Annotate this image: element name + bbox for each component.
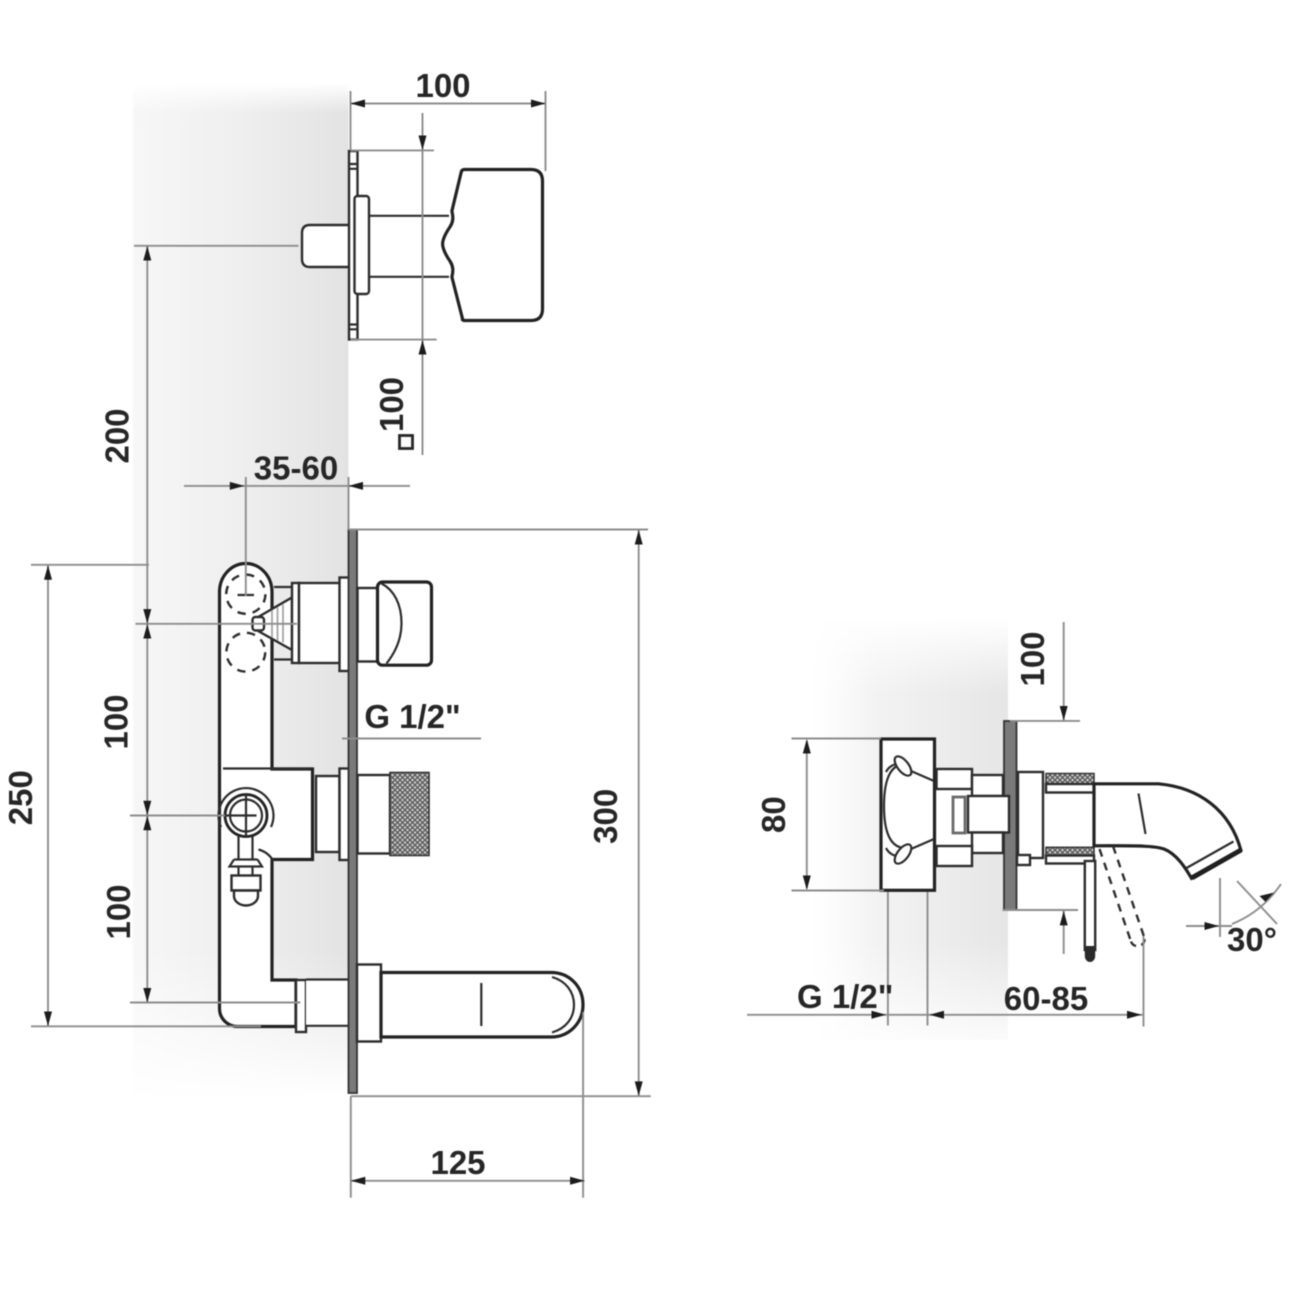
spout outlet face bbox=[1192, 850, 1241, 878]
svg-text:35-60: 35-60 bbox=[254, 450, 338, 487]
upper port inlet (dashed circle, hot) bbox=[226, 575, 265, 614]
handle neck (CL1) bbox=[358, 588, 379, 662]
wall shading band (side view) bbox=[812, 618, 1008, 1095]
dim square-100 centerline bbox=[351, 113, 437, 455]
ref line body top bbox=[31, 564, 149, 566]
svg-text:100: 100 bbox=[415, 67, 470, 104]
dim 80 bbox=[792, 739, 885, 891]
dim 200/100/100 line bbox=[146, 246, 148, 1003]
cartridge dome bbox=[884, 764, 904, 848]
dim 125 bbox=[351, 1012, 585, 1198]
plate screw slots bbox=[349, 164, 358, 329]
spout tube (front) bbox=[381, 973, 583, 1038]
ref line CL3 spout bbox=[130, 1002, 300, 1004]
knurled ring upper edge bbox=[1046, 774, 1094, 785]
spout body (side, curved) bbox=[1094, 784, 1241, 879]
funnel shading ticks bbox=[272, 605, 283, 643]
collar (CL1) bbox=[340, 578, 351, 672]
wall shading band (front/top views) bbox=[133, 83, 349, 1098]
valve stem boss bbox=[253, 617, 265, 631]
cartridge rear guide bbox=[953, 797, 965, 833]
svg-text:G 1/2": G 1/2" bbox=[797, 978, 893, 1015]
escutcheon foot bbox=[1017, 855, 1030, 865]
knurled ring lower edge bbox=[1046, 847, 1094, 855]
knob face arc bbox=[382, 584, 402, 664]
cartridge stem housing bbox=[968, 796, 1009, 833]
spout supply pipe through wall bbox=[306, 980, 349, 1026]
dim 35-60 bbox=[184, 477, 410, 596]
center tick upper circle bbox=[238, 594, 255, 596]
lower port inlet (dashed circle, cold) bbox=[226, 633, 265, 672]
cartridge nut inner circle bbox=[230, 800, 262, 832]
svg-text:100: 100 bbox=[1014, 631, 1051, 686]
lever rod tip bbox=[1085, 946, 1095, 962]
escutcheon box (CL1) bbox=[299, 583, 341, 663]
ref line body bottom bbox=[31, 1025, 261, 1027]
knurled adjuster nut (CL2) bbox=[390, 773, 429, 856]
svg-text:100: 100 bbox=[100, 884, 137, 939]
spout supply flange bbox=[296, 980, 306, 1032]
escutcheon box (CL2, outside) bbox=[358, 775, 391, 854]
dim G1/2 + 60-85 baseline bbox=[747, 892, 1144, 1027]
spout outlet inner line bbox=[1187, 842, 1234, 869]
dim 200 reference line (top) bbox=[134, 245, 299, 247]
drain stem below cartridge bbox=[234, 837, 258, 860]
lever dashed end cap bbox=[1131, 938, 1145, 946]
connection upper block bbox=[937, 769, 973, 789]
spout decor tick (side) bbox=[1139, 794, 1146, 835]
escutcheon (side) bbox=[1018, 772, 1043, 858]
cartridge cross lines bbox=[225, 794, 257, 837]
flange bbox=[355, 196, 370, 294]
svg-text:300: 300 bbox=[587, 789, 624, 844]
ref line CL1 bbox=[136, 623, 298, 625]
dim 300 bbox=[349, 530, 651, 1097]
drain plug body bbox=[232, 876, 261, 891]
spout end inner arc bbox=[552, 977, 574, 1033]
square symbol of dim 100 bbox=[400, 436, 413, 449]
cartridge nut outer circle bbox=[225, 795, 267, 837]
connection upper sleeve bbox=[972, 775, 1003, 796]
valve body bbox=[220, 564, 313, 1027]
connection lower sleeve bbox=[972, 833, 1003, 854]
valve cone / funnel bbox=[255, 598, 293, 651]
dim 100 upper (side) bbox=[1010, 622, 1080, 721]
collar (CL2) bbox=[340, 769, 350, 861]
knob (side profile) bbox=[443, 170, 543, 321]
svg-text:80: 80 bbox=[755, 796, 792, 833]
knob (CL1, front) bbox=[378, 582, 432, 665]
cartridge boss arc (CL2) bbox=[219, 788, 274, 827]
svg-text:200: 200 bbox=[99, 408, 136, 463]
dim 100 lower (side) bbox=[1003, 910, 1079, 954]
svg-text:250: 250 bbox=[2, 770, 39, 825]
lever rod bbox=[1085, 861, 1095, 950]
body step line at cartridge housing bbox=[223, 767, 313, 769]
in-wall supply connector bbox=[302, 225, 352, 267]
wall plate (side view) bbox=[1004, 721, 1017, 910]
svg-text:100: 100 bbox=[98, 694, 135, 749]
drain connection arc bbox=[259, 850, 274, 862]
ref line CL2 bbox=[130, 815, 225, 817]
wall plate (front view, edge-on) bbox=[349, 530, 358, 1094]
mixer body (in wall) bbox=[881, 739, 935, 890]
connection lower block bbox=[937, 846, 973, 866]
dim 100 (top) bbox=[351, 91, 546, 171]
spout decor tick bbox=[480, 983, 482, 1026]
port cylinder lines (CL1) bbox=[274, 587, 293, 660]
svg-text:100: 100 bbox=[373, 377, 410, 432]
lever alternate position (dashed) bbox=[1100, 846, 1145, 942]
connector sleeve (CL2, in wall) bbox=[316, 776, 340, 852]
svg-text:60-85: 60-85 bbox=[1004, 980, 1088, 1017]
connection cylinder backing bbox=[937, 769, 1004, 866]
dim 250 line bbox=[47, 565, 49, 1026]
svg-text:G 1/2": G 1/2" bbox=[364, 698, 460, 735]
stem bbox=[369, 216, 449, 277]
upper fixing screw bbox=[886, 754, 934, 781]
flange at wall (CL1) bbox=[292, 583, 299, 663]
lower fixing screw bbox=[886, 839, 934, 866]
svg-text:125: 125 bbox=[430, 1144, 485, 1181]
dim 30 degrees bbox=[1186, 878, 1281, 937]
lower trim strip bbox=[1046, 856, 1094, 864]
wall plate (top view) bbox=[349, 151, 358, 340]
spout escutcheon bbox=[357, 965, 381, 1042]
drain plug cap bbox=[234, 891, 258, 906]
upper trim strip bbox=[1046, 784, 1094, 793]
svg-text:30°: 30° bbox=[1227, 921, 1277, 958]
drain flare bbox=[230, 860, 263, 876]
